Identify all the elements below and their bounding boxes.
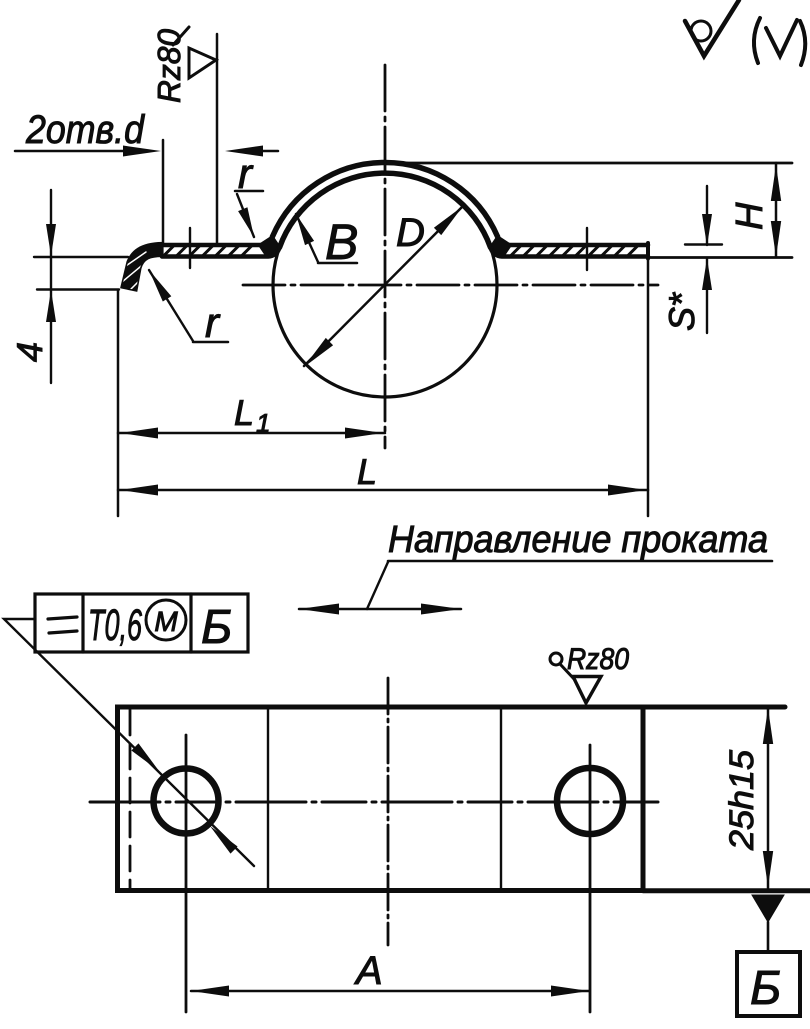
arrowhead 4 upper	[46, 224, 56, 256]
S* lower arrow line	[706, 258, 708, 333]
right hole	[557, 768, 623, 834]
svg-text:Б: Б	[201, 601, 232, 654]
arrowhead L right	[608, 485, 646, 496]
L dimension line	[118, 489, 648, 492]
A dimension line	[191, 990, 589, 993]
left fillet dark patch	[259, 236, 280, 257]
section view clamp profile: left flange top line	[162, 237, 272, 245]
clamp hump outer arc	[272, 162, 497, 236]
arrowhead frame leader at hole	[131, 743, 159, 771]
section view clamp profile: left flange bottom line	[162, 248, 280, 257]
hole centerline tick on left flange	[189, 228, 191, 268]
right flange end cut	[646, 243, 650, 259]
top tangent line for H	[394, 162, 792, 165]
svg-text:L: L	[234, 392, 254, 433]
vertical center dash-dot line of plate	[387, 678, 390, 945]
clamp hump inner arc	[280, 173, 491, 247]
dashed line near left edge	[129, 710, 132, 889]
circled M modifier	[146, 600, 186, 640]
view label box B	[737, 952, 800, 1016]
arrowhead r-top leader	[238, 207, 254, 237]
arrowhead rolling dir left	[299, 604, 339, 615]
arrowhead 2otv right pointing left	[225, 146, 263, 157]
svg-text:25h15: 25h15	[723, 750, 761, 851]
L1 dimension line	[118, 432, 385, 435]
S* extension tick	[685, 243, 722, 245]
svg-text:T0,6: T0,6	[88, 601, 142, 650]
roughness symbol link circle to triangle	[560, 664, 575, 680]
leader line r lower	[149, 270, 193, 341]
arrowheads	[46, 146, 781, 997]
section view clamp profile: right flange bottom line	[491, 248, 649, 257]
bend line right	[500, 707, 502, 890]
svg-text:S*: S*	[661, 292, 702, 331]
arrowhead D upper	[434, 206, 463, 235]
extension line x648 right end	[647, 260, 650, 516]
arrowhead rolling dir right	[421, 604, 461, 615]
svg-text:A: A	[354, 949, 383, 993]
leader line B	[296, 214, 318, 262]
section arrow B stem	[767, 922, 770, 952]
pipe circle	[273, 173, 497, 397]
right fillet dark patch	[490, 236, 511, 257]
dimension line 2otv.d left part	[15, 150, 125, 153]
extension line y289 for 4 dim	[37, 288, 119, 290]
parenthesis right of (V) clipped	[800, 21, 805, 65]
bottom edge extension to the right	[643, 888, 810, 893]
horizontal centerline through holes	[90, 801, 662, 804]
section view clamp profile: left bent hook end (filled cross-section)	[122, 244, 162, 291]
extension line y257 for 4 dim	[34, 256, 128, 258]
underline of r lower	[193, 341, 228, 344]
leader from underline to rolling direction arrow	[367, 562, 388, 609]
hatching ticks between flange lines	[163, 246, 638, 257]
horizontal centerline of pipe circle	[243, 284, 658, 287]
svg-text:М: М	[154, 606, 178, 637]
section view clamp profile: right flange top line	[498, 237, 648, 245]
left hole vertical centerline	[185, 735, 188, 1012]
arrowhead L1 left	[120, 428, 158, 439]
dimension line 2otv.d right part	[261, 150, 278, 153]
svg-text:Rz80: Rz80	[151, 29, 187, 103]
arrowhead S* lower	[702, 258, 712, 290]
diameter line D at 45 deg	[304, 206, 463, 366]
4 dimension vertical line	[50, 190, 52, 383]
25h15 dimension line	[767, 708, 770, 888]
arrowhead H top	[771, 165, 781, 201]
rolling direction double arrow shaft	[299, 608, 461, 611]
roughness symbol circle (bottom view)	[550, 653, 562, 665]
flange bottom extension line right	[650, 256, 792, 259]
svg-text:2отв.d: 2отв.d	[25, 108, 145, 152]
svg-text:Направление проката: Направление проката	[388, 519, 768, 561]
tolerance frame box	[35, 594, 248, 652]
underline of r upper	[235, 190, 263, 193]
svg-text:В: В	[325, 214, 358, 270]
underline of B	[318, 262, 357, 265]
arrowhead A right	[551, 986, 589, 997]
arrowhead 4 lower	[46, 290, 56, 322]
leader line r upper	[237, 194, 254, 237]
arrowhead 25h15 bottom	[763, 851, 773, 887]
S* upper arrow line	[706, 186, 708, 245]
hole centerline tick on right flange	[586, 228, 588, 270]
arrowhead hole diameter lower	[210, 826, 238, 854]
roughness symbol tail stroke	[173, 27, 189, 45]
arrowhead D lower	[304, 338, 333, 367]
arrowhead B leader	[296, 214, 314, 245]
svg-text:L: L	[357, 451, 377, 492]
roughness symbol triangle (bottom view)	[573, 677, 601, 704]
svg-text:Rz80: Rz80	[567, 643, 629, 676]
underline of napravlenie prokata	[388, 560, 772, 563]
tolerance frame divider 1	[81, 594, 84, 652]
svg-text:H: H	[729, 202, 771, 230]
arrowhead S* upper	[702, 214, 712, 246]
check V inside parens	[766, 20, 797, 56]
arrowhead 25h15 top	[763, 708, 773, 744]
bottom view plate rectangle	[118, 707, 644, 891]
arrowhead r-lower leader	[149, 270, 171, 302]
leader from tolerance frame through hole	[4, 619, 254, 866]
top edge extension to the right	[643, 705, 785, 710]
arrowhead L1 right	[345, 428, 383, 439]
svg-text:1: 1	[256, 408, 270, 438]
tolerance frame divider 2	[189, 594, 192, 652]
section arrow B filled triangle	[752, 895, 784, 922]
arrowhead A left	[191, 986, 229, 997]
symmetry symbol =	[48, 617, 77, 633]
right hole vertical centerline	[589, 745, 592, 1012]
parenthesis left of (V)	[754, 18, 760, 63]
svg-text:4: 4	[9, 342, 50, 362]
vertical centerline of pipe circle	[384, 65, 387, 448]
roughness symbol Rz80 on extension line (rotated triangle)	[189, 48, 216, 78]
svg-text:Б: Б	[750, 962, 781, 1015]
left hole	[154, 769, 219, 834]
extension line x118 left end	[117, 290, 120, 516]
extension line x163 for hole dimension	[162, 140, 165, 243]
svg-text:r: r	[205, 299, 221, 346]
H dimension line	[775, 163, 778, 257]
surface mark top right: check with circle	[685, 0, 739, 56]
extension line x217 under roughness symbol	[216, 34, 219, 243]
arrowhead 2otv left pointing right	[123, 146, 161, 157]
hatching white ticks over hook	[120, 252, 148, 292]
arrowhead H bottom	[771, 221, 781, 257]
bend line left	[267, 707, 269, 890]
arrowhead L left	[120, 485, 158, 496]
